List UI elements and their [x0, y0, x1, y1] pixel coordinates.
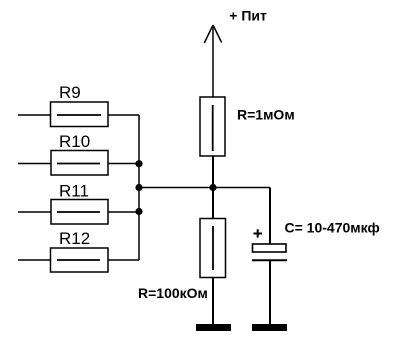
svg-text:C= 10-470мкф: C= 10-470мкф — [285, 219, 380, 235]
resistor R11 — [18, 200, 139, 225]
wire main node horizontal — [139, 187, 270, 189]
junction R10 bus — [135, 160, 142, 167]
wire node to capacitor top — [269, 188, 271, 245]
ground right — [252, 324, 287, 331]
svg-text:R=1мОм: R=1мОм — [237, 106, 295, 122]
resistor R12 — [18, 248, 139, 272]
wire R2 bottom to ground — [212, 278, 214, 325]
svg-text:R11: R11 — [59, 182, 89, 201]
power arrow +Пит — [204, 25, 221, 97]
svg-text:R=100кОм: R=100кОм — [138, 285, 208, 301]
wire bus vertical — [138, 115, 140, 260]
svg-text:+ Пит: + Пит — [229, 8, 267, 24]
resistor R=1мОм — [200, 97, 225, 156]
ground left — [196, 324, 231, 331]
capacitor C 10-470мкф — [252, 244, 287, 260]
wire R1 bottom to node — [212, 156, 214, 188]
svg-text:R12: R12 — [59, 229, 90, 248]
resistor R=100кОм — [200, 219, 226, 278]
wire capacitor to ground — [269, 260, 271, 324]
junction R11 bus — [135, 208, 142, 215]
resistor R9 — [18, 102, 139, 127]
junction node center — [209, 184, 216, 191]
svg-text:R10: R10 — [59, 132, 90, 151]
resistor R10 — [18, 151, 139, 176]
capacitor polarity plus — [254, 229, 263, 237]
junction node on bus — [135, 184, 142, 191]
wire node to R2 top — [212, 188, 214, 219]
svg-text:R9: R9 — [59, 83, 81, 102]
